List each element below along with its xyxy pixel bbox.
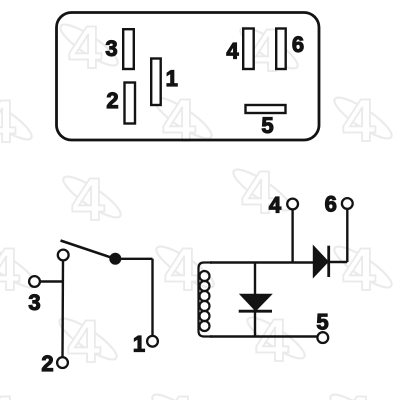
series diode D2 (pointing right)	[313, 246, 328, 278]
svg-text:2: 2	[106, 88, 118, 113]
pin 5 slot	[246, 105, 286, 113]
pin 4 slot	[243, 29, 254, 70]
terminal 6 circle	[342, 198, 353, 209]
terminal 4 circle	[287, 199, 298, 210]
svg-text:3: 3	[28, 290, 40, 315]
relay connector body outline	[57, 13, 320, 141]
terminal 3 circle	[29, 276, 40, 287]
svg-text:4: 4	[226, 39, 239, 64]
wire to terminal 1 (vertical)	[151, 259, 153, 336]
svg-text:1: 1	[166, 66, 178, 91]
wire from dot to terminal 1 (horizontal)	[115, 258, 152, 260]
series diode D2 cathode bar	[327, 246, 330, 277]
flyback diode D1 (pointing down)	[240, 294, 272, 311]
wire diode D2 to terminal 6 branch (horizontal)	[330, 261, 347, 263]
svg-text:4: 4	[269, 193, 282, 218]
svg-text:6: 6	[292, 32, 304, 57]
terminal 2 circle	[57, 357, 68, 368]
wire terminal 4 to top wire (vertical)	[291, 209, 293, 262]
pin 1 slot	[151, 59, 161, 106]
common junction dot	[109, 253, 121, 265]
coil bottom wire (horizontal)	[210, 335, 317, 337]
svg-text:1: 1	[133, 332, 145, 357]
svg-text:5: 5	[316, 310, 328, 335]
svg-text:3: 3	[105, 36, 117, 61]
terminal 1 circle	[147, 336, 158, 347]
wire pivot to terminal 2 (vertical)	[61, 260, 64, 357]
wire terminal 3 to arm (horizontal)	[40, 280, 64, 282]
switch arm wire	[61, 241, 116, 259]
svg-text:2: 2	[41, 351, 53, 376]
pin 3 slot	[123, 29, 134, 69]
terminal 5 circle	[317, 332, 328, 343]
svg-text:6: 6	[325, 192, 337, 217]
switch pivot terminal circle	[58, 250, 69, 261]
flyback diode D1 cathode bar	[239, 310, 272, 313]
pin 2 slot	[125, 83, 136, 124]
relay coil L1	[199, 263, 213, 337]
svg-text:5: 5	[261, 113, 273, 138]
wire terminal 6 (vertical)	[346, 209, 348, 262]
pin 6 slot	[276, 29, 286, 70]
flyback diode D1 wire (vertical)	[254, 263, 256, 337]
coil top wire (horizontal)	[210, 261, 314, 263]
